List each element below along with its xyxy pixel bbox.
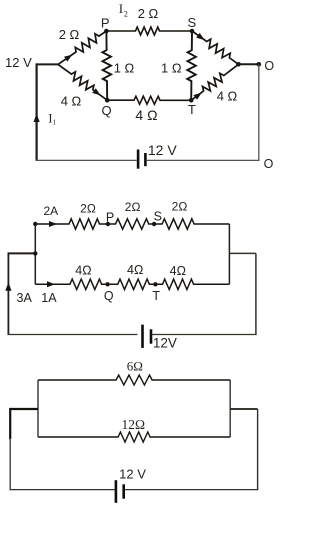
wire bottom left segment — [36, 159, 137, 161]
resistor R12 4ohm bottom-1 — [35, 279, 107, 289]
svg-text:2 Ω: 2 Ω — [59, 27, 80, 42]
label node S — [187, 15, 196, 30]
label node P — [101, 16, 110, 31]
label current I1 — [48, 112, 56, 127]
resistor R1 2ohm L-P diagonal — [58, 31, 106, 64]
svg-text:P: P — [106, 210, 114, 224]
node Q — [105, 98, 110, 103]
svg-text:4Ω: 4Ω — [170, 264, 186, 278]
node top-left junction — [33, 222, 37, 226]
svg-text:12 V: 12 V — [119, 467, 146, 482]
label 4 ohm on T-R — [217, 89, 238, 104]
svg-text:2Ω: 2Ω — [80, 202, 96, 216]
svg-text:I: I — [119, 1, 123, 16]
resistor R6 4ohm Q-T bottom branch — [107, 96, 191, 104]
wire left vertical branch — [35, 63, 37, 160]
resistor R11 2ohm top-3 — [154, 219, 229, 229]
arrow current on L-P branch — [64, 55, 72, 62]
svg-text:6Ω: 6Ω — [127, 359, 143, 374]
svg-text:Q: Q — [102, 103, 112, 118]
resistor R4 1ohm P-Q vertical — [102, 31, 111, 100]
battery B1 source label 12 V — [5, 55, 32, 70]
node P — [106, 222, 110, 226]
svg-text:4 Ω: 4 Ω — [61, 93, 82, 108]
svg-text:2Ω: 2Ω — [125, 200, 141, 214]
label 4 ohm on Q-T — [135, 107, 157, 123]
label 12 ohm — [122, 417, 146, 432]
label current 3A — [17, 291, 33, 305]
svg-text:2: 2 — [124, 9, 128, 18]
arrow current 3A upward — [5, 282, 11, 291]
svg-text:12Ω: 12Ω — [122, 417, 146, 432]
label 1 ohm on P-Q — [114, 60, 135, 75]
node T — [153, 282, 157, 286]
wire R to terminal O — [239, 63, 259, 65]
node T — [189, 98, 194, 103]
arrow current 1A on bottom branch — [47, 281, 55, 287]
label 2 ohm top-2 — [125, 200, 141, 214]
label 2 ohm on P-S — [138, 6, 159, 21]
label 6 ohm — [127, 359, 143, 374]
wire outer-right vertical — [255, 253, 257, 334]
svg-text:P: P — [101, 16, 110, 31]
node terminal O — [257, 62, 262, 67]
wire bottom right segment — [147, 159, 260, 161]
label terminal O top — [264, 59, 274, 73]
arrow current on L-Q branch — [92, 88, 100, 95]
resistor R7 S-R diagonal — [192, 31, 239, 64]
label 4 ohm bottom-3 — [170, 264, 186, 278]
label battery B2 12V — [153, 336, 177, 351]
resistor R16 12ohm bottom branch — [38, 432, 230, 442]
wire inner-right vertical — [229, 380, 231, 437]
svg-text:O: O — [264, 59, 274, 73]
wire mid-right horizontal — [230, 408, 257, 410]
resistor R8 4ohm T-R diagonal — [191, 64, 238, 100]
label 4 ohm on L-Q — [61, 93, 82, 108]
svg-text:S: S — [154, 209, 162, 223]
battery B2 12V cell — [143, 325, 152, 348]
svg-text:4Ω: 4Ω — [127, 263, 143, 277]
svg-text:4Ω: 4Ω — [75, 263, 91, 277]
svg-text:3A: 3A — [17, 291, 33, 305]
svg-text:1 Ω: 1 Ω — [161, 60, 182, 75]
arrow current I1 upward — [34, 114, 40, 123]
label current 1A — [41, 291, 57, 305]
svg-text:4 Ω: 4 Ω — [135, 107, 157, 123]
svg-text:1A: 1A — [41, 291, 57, 305]
label node S — [154, 209, 162, 223]
battery B1 12V cell — [138, 150, 145, 169]
svg-text:O: O — [264, 157, 274, 171]
node P — [104, 29, 109, 34]
svg-text:2A: 2A — [43, 204, 58, 218]
battery B3 12V cell — [116, 480, 124, 503]
wire outer-left vertical upper — [9, 408, 11, 439]
node R junction — [236, 62, 241, 67]
resistor R5 1ohm S-T vertical — [187, 31, 196, 100]
wire inner-left vertical — [37, 380, 39, 437]
svg-text:12 V: 12 V — [5, 55, 32, 70]
svg-text:Q: Q — [104, 289, 114, 303]
label battery B3 12 V — [119, 467, 146, 482]
wire battery row right — [152, 334, 256, 336]
wire outer-left vertical lower — [9, 438, 11, 490]
svg-text:T: T — [188, 102, 196, 117]
node S — [190, 29, 195, 34]
arrow current on T-R branch — [193, 93, 201, 100]
label 2 ohm top-1 — [80, 202, 96, 216]
node mid-left junction — [33, 251, 37, 255]
label 2 ohm on L-P — [59, 27, 80, 42]
label node P — [106, 210, 114, 224]
label node T — [188, 102, 196, 117]
wire battery row left — [8, 334, 138, 336]
resistor R13 4ohm bottom-2 — [108, 279, 156, 289]
svg-text:T: T — [152, 289, 160, 303]
resistor R2 4ohm L-Q diagonal — [58, 64, 107, 100]
label node Q — [102, 103, 112, 118]
node Q — [105, 282, 109, 286]
svg-text:1 Ω: 1 Ω — [114, 60, 135, 75]
label 2 ohm top-3 — [172, 199, 188, 213]
label current I2 — [119, 1, 128, 19]
node S — [152, 222, 156, 226]
wire inner-left vertical — [34, 224, 36, 284]
label battery B1 12 V — [148, 142, 177, 158]
wire right vertical — [258, 64, 260, 160]
svg-text:1: 1 — [53, 119, 57, 127]
arrow current on S-R branch — [196, 33, 204, 40]
wire mid-left horizontal — [8, 252, 35, 254]
label terminal O bottom — [264, 157, 274, 171]
wire mid-left horizontal — [10, 408, 38, 410]
arrow current 2A on top branch — [49, 221, 57, 227]
wire battery row right — [125, 489, 258, 491]
svg-text:2Ω: 2Ω — [172, 199, 188, 213]
resistor R15 6ohm top branch — [38, 375, 230, 385]
resistor R10 2ohm top-2 — [108, 219, 154, 229]
label 4 ohm bottom-2 — [127, 263, 143, 277]
label node T — [152, 289, 160, 303]
svg-text:2 Ω: 2 Ω — [138, 6, 159, 21]
wire inner-right vertical — [228, 224, 230, 284]
svg-text:S: S — [187, 15, 196, 30]
wire mid-right horizontal — [229, 252, 256, 254]
wire battery row left — [10, 489, 115, 491]
svg-text:4 Ω: 4 Ω — [217, 89, 238, 104]
wire outer-right vertical — [257, 409, 259, 490]
wire battery positive to node L — [37, 63, 58, 65]
label node Q — [104, 289, 114, 303]
resistor R9 2ohm top-1 — [35, 219, 108, 229]
resistor R14 4ohm bottom-3 — [155, 279, 229, 289]
label current 2A — [43, 204, 58, 218]
svg-text:12 V: 12 V — [148, 142, 177, 158]
wire outer-left vertical — [7, 252, 9, 334]
label 4 ohm bottom-1 — [75, 263, 91, 277]
resistor R3 2ohm P-S top branch — [106, 27, 192, 35]
label 1 ohm on S-T — [161, 60, 182, 75]
svg-text:12V: 12V — [153, 336, 177, 351]
